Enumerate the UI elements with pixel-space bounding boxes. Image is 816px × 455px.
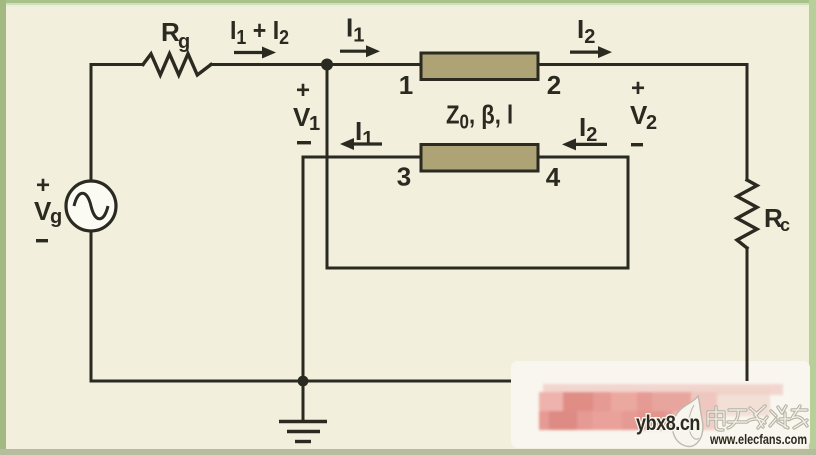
watermark panel bbox=[511, 361, 810, 448]
watermark leaf logo bbox=[673, 396, 703, 446]
watermark red patch bbox=[539, 384, 783, 430]
svg-text:1: 1 bbox=[399, 70, 413, 100]
svg-text:g: g bbox=[50, 206, 62, 228]
voltage source Vg bbox=[66, 181, 116, 231]
label Z0,beta,l bbox=[446, 101, 513, 133]
arrow I1+I2 bbox=[234, 47, 276, 59]
label V1 minus bbox=[297, 141, 311, 144]
svg-text:3: 3 bbox=[397, 162, 411, 192]
svg-text:2: 2 bbox=[646, 112, 657, 134]
label I1+I2 bbox=[230, 17, 289, 49]
ground node junction dot bbox=[298, 376, 309, 387]
wire port 3 lead bbox=[303, 157, 421, 381]
svg-text:4: 4 bbox=[546, 162, 561, 192]
arrow I2 top bbox=[570, 46, 612, 58]
label V2 minus bbox=[631, 143, 643, 146]
svg-text:ybx8.cn: ybx8.cn bbox=[636, 411, 700, 435]
svg-text:+: + bbox=[36, 172, 50, 199]
svg-text:+: + bbox=[296, 77, 310, 104]
svg-text:c: c bbox=[780, 215, 790, 235]
svg-text:www.elecfans.com: www.elecfans.com bbox=[709, 432, 807, 447]
svg-text:g: g bbox=[178, 31, 190, 53]
watermark chinese brand glyphs bbox=[708, 406, 807, 430]
svg-text:+: + bbox=[631, 75, 645, 102]
wire Rc to bottom right corner bbox=[746, 248, 749, 381]
ground stem bbox=[302, 381, 305, 420]
node A junction dot bbox=[321, 59, 333, 71]
svg-text:1: 1 bbox=[309, 113, 320, 135]
resistor Rc bbox=[737, 180, 757, 248]
wire over panel (right vertical) bbox=[746, 360, 749, 381]
ground bbox=[279, 422, 327, 442]
wire port 4 return loop bbox=[327, 65, 628, 269]
resistor Rg bbox=[143, 54, 211, 75]
label Vg minus bbox=[36, 239, 48, 242]
bottom wire to ground node bbox=[91, 380, 513, 383]
arrow I2 middle (left) bbox=[562, 138, 607, 150]
wire top-left from source to Rg bbox=[91, 65, 143, 181]
arrow I1 top bbox=[340, 45, 380, 57]
arrow I1 middle (left) bbox=[340, 138, 382, 150]
svg-text:Z0, β, l: Z0, β, l bbox=[446, 101, 513, 133]
transmission line bottom bar bbox=[421, 145, 538, 172]
wire port 2 to right corner bbox=[538, 65, 747, 181]
wire source to bottom bbox=[90, 232, 93, 381]
wire node A to port 1 bbox=[327, 63, 421, 66]
transmission line top bar bbox=[421, 53, 538, 80]
svg-text:2: 2 bbox=[547, 70, 561, 100]
wire Rg to node A bbox=[211, 63, 327, 66]
